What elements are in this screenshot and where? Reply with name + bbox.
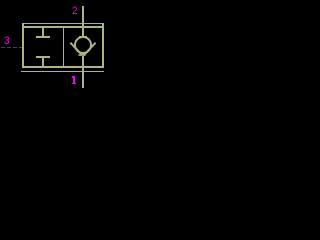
tilt switch body: top edge (22, 26, 104, 28)
pin 2 wire (top) (82, 6, 84, 37)
pin 3 unconnected wire (red dashed) (1, 47, 5, 48)
tilt switch body: outer bottom line (thin) (21, 71, 104, 72)
V seat right arm (84, 43, 96, 56)
circle top flat (79, 36, 87, 38)
contact electrode top: stem (42, 28, 44, 36)
tilt switch body: bottom edge (22, 66, 104, 68)
tilt switch body: left edge (22, 23, 24, 68)
contact electrode bottom: bar (36, 56, 50, 58)
tilt switch body: outer top line (thin) (22, 23, 104, 24)
contact electrode top: bar (36, 36, 50, 38)
background (0, 0, 122, 90)
svg-text:2: 2 (72, 5, 78, 17)
V seat vertex flat (78, 54, 85, 56)
tilt switch body: right edge (102, 23, 104, 68)
pin number 1 (72, 76, 76, 84)
svg-text:3: 3 (4, 35, 10, 47)
contact electrode bottom: stem (42, 58, 44, 66)
pin 1 wire (bottom) (82, 56, 84, 88)
ball (circle) of tilt switch (75, 37, 91, 53)
tilt switch body: center divider (63, 28, 64, 66)
V seat left arm (70, 43, 82, 56)
